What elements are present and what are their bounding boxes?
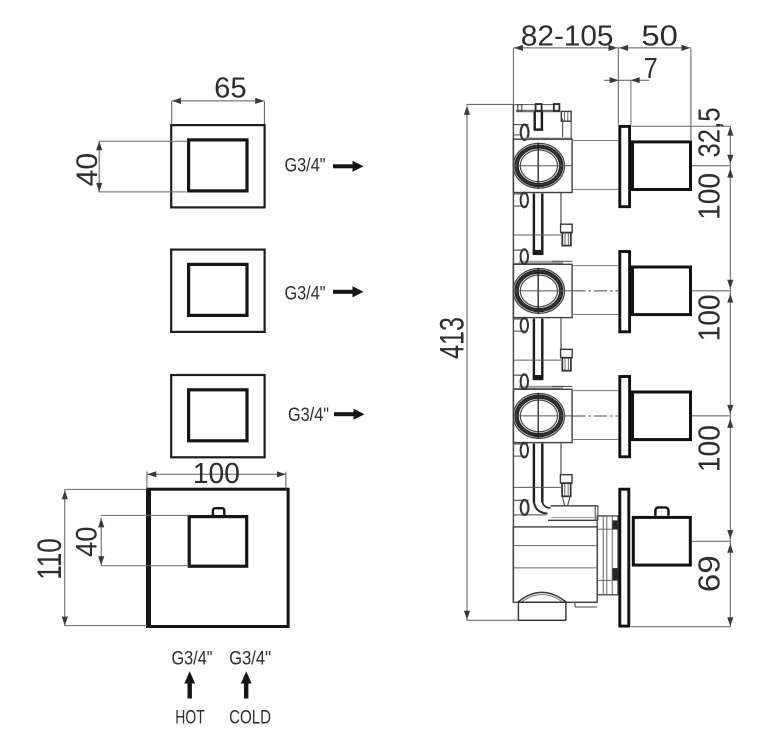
station 3 [513,377,729,457]
cold up arrow [241,671,252,698]
svg-text:100: 100 [692,425,727,472]
dim 413 line [466,105,468,620]
top slot [534,112,536,131]
dim 110 extensions [64,488,147,490]
bottom axis extension [692,540,730,542]
top screw tab 3 [554,104,560,111]
svg-text:G3/4": G3/4" [285,155,326,176]
bottom escutcheon plate [620,489,629,626]
main trim plate (mixer) outer square [148,489,289,626]
dim 7 extensions [630,81,632,125]
right chain dim line [729,126,731,627]
svg-text:100: 100 [193,458,240,490]
svg-text:50: 50 [641,20,678,52]
dim 7 line [604,79,649,81]
foot block [518,602,566,620]
dim 100 front line [147,473,286,475]
svg-text:G3/4": G3/4" [229,647,271,669]
dim 110 line [64,490,66,626]
thermostat body block [513,527,597,602]
adapter stack [597,516,618,595]
dim 65 line [172,100,265,102]
bottom knob button [655,507,668,515]
segment below station 3: hook flange [514,443,527,445]
bottom knob [633,517,690,565]
G3/4 arrow row 1 [333,161,364,172]
trim plate row 2 [171,250,264,332]
bottom-left hook flange [514,499,529,501]
svg-text:HOT: HOT [175,707,205,729]
top screw tab 1 [518,105,522,111]
top cap plate [516,110,560,112]
segment between station 2-3 [513,318,572,389]
dim 40 bottom extensions [101,514,189,516]
main plate left edge accent [148,489,151,626]
svg-text:COLD: COLD [229,707,271,729]
mixer handle inner square [189,517,247,567]
svg-text:40: 40 [71,526,104,557]
segment between station 1-2 [513,193,572,264]
svg-text:G3/4": G3/4" [172,647,213,669]
station 2 [513,252,729,332]
dim 40 bottom line [100,518,102,566]
top right step [562,119,564,137]
G3/4 arrow row 3 [334,409,365,420]
svg-text:100: 100 [692,294,727,341]
top left stub [514,124,529,126]
svg-text:82-105: 82-105 [521,20,614,52]
inlet tube [551,505,598,507]
lower right edge [560,443,562,474]
svg-text:100: 100 [692,173,727,220]
top right fitting [561,111,571,121]
dim 82-105 / 50 line [513,47,690,49]
body left edge [512,104,514,602]
dim 100 front extensions [146,472,148,489]
hot up arrow [184,671,195,698]
right chain top extension [632,125,731,127]
lower screw boss [560,475,572,483]
station 3 gap centerline [573,415,619,417]
chain arrows [727,127,733,136]
dim 40 top line [98,141,100,193]
side top extensions [512,49,514,105]
svg-text:32,5: 32,5 [691,108,726,158]
mixer button [213,508,224,516]
funnel below boss [562,496,570,505]
svg-text:G3/4": G3/4" [288,405,329,426]
right chain bottom extension [631,626,730,628]
station 1 [513,126,729,206]
G3/4 arrow row 2 [333,286,364,297]
trim plate row 1 [171,125,264,207]
station 2 gap centerline [573,290,619,292]
svg-text:69: 69 [691,555,726,592]
dome cap [518,592,566,602]
dim 40 top extension lines [99,140,188,142]
dim 65 extension lines [171,102,173,125]
svg-text:413: 413 [433,317,471,359]
lower joint line [513,486,561,488]
dim 413 extensions [467,103,514,105]
svg-text:40: 40 [71,153,104,187]
svg-text:7: 7 [644,53,658,85]
lower pipe [533,444,535,503]
pipe elbow curves [534,501,548,514]
trim plate row 3 [171,375,264,457]
svg-text:G3/4": G3/4" [285,283,326,304]
top band shading [524,138,572,140]
svg-text:110: 110 [31,538,69,580]
top screw tab 2 [536,104,542,111]
block bottom step [575,606,597,608]
svg-text:65: 65 [214,73,247,105]
